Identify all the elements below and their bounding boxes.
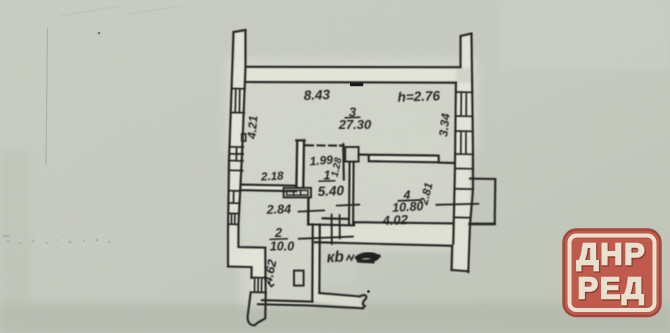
right wall divider: [455, 168, 473, 170]
faint diagonal streaks top: [60, 6, 180, 16]
left wall strip: [228, 68, 245, 230]
room1/4 partition: [349, 162, 354, 223]
left stub: [235, 32, 245, 68]
bottom corridor walls: [309, 224, 453, 246]
logo ДНР РЕД: [564, 230, 661, 317]
window hatch lower-left block: [251, 278, 266, 293]
small hook mark: [269, 283, 274, 286]
room2 top wall strip: [242, 185, 296, 191]
corridor stub top line: [319, 293, 360, 296]
wall break pennant bottom-left: [248, 292, 266, 325]
wall: room1/room4 partition: [349, 162, 354, 224]
window hatch left wall block 2: [230, 147, 243, 161]
scribbled-out apartment number: [356, 254, 381, 262]
wall: right chimney stub: [461, 34, 472, 68]
small shaft box room2 corner: [294, 271, 304, 286]
wall: lower-left zigzag jog: [238, 224, 265, 247]
heating riser bump on left wall: [242, 134, 246, 141]
wall: room4 top wall: [359, 155, 454, 163]
right stub: [462, 36, 472, 68]
balcony box: [470, 179, 495, 224]
paper shading bottom darker: [0, 303, 670, 333]
wall: room2 right wall: [307, 198, 310, 225]
top wall strip: [246, 68, 456, 81]
faint crease line: [46, 28, 48, 165]
corridor lower line D: [299, 237, 353, 239]
right wall strip: [453, 83, 472, 272]
lower-left zig strip: [228, 230, 265, 292]
wardrobe: [284, 188, 311, 198]
wall: top wall upper line: [246, 66, 461, 68]
wall: room1 left thick wall: [295, 141, 298, 186]
wall: left chimney stub top: [234, 30, 246, 32]
wall: left interior line: [239, 30, 246, 224]
window hatch left wall block 3: [229, 191, 239, 204]
balcony door jamb caps: [454, 189, 472, 218]
black vent tick on top wall: [350, 83, 363, 86]
wall break S bottom-center: [360, 295, 367, 308]
subtle light halo over whole plan: [226, 58, 478, 307]
room1 thick wall: [296, 141, 304, 187]
white wall interiors: [228, 32, 472, 308]
window hatch right wall block B: [455, 131, 473, 154]
paper shading top-right lighter: [500, 0, 670, 70]
bottom-right hook: [452, 246, 469, 271]
wall: top wall lower line: [245, 81, 456, 84]
room4 top wall strip: [359, 155, 439, 163]
svg-text:РЕД: РЕД: [578, 271, 646, 306]
wall: right interior line: [453, 83, 456, 244]
window hatch right wall block A: [456, 92, 473, 116]
door tick room2-hall: [299, 210, 324, 211]
door tick room1-room4: [337, 205, 359, 206]
left wall divider: [230, 169, 243, 171]
wall: right exterior line: [468, 34, 473, 273]
window hatch left wall block 4: [228, 213, 238, 224]
paper shading left darker: [0, 150, 30, 333]
vent shaft box: [345, 147, 358, 162]
faint smudge row left: [2, 235, 110, 244]
entrance door ticks: [332, 215, 340, 244]
wall: room4 / corridor bottom walls: [309, 222, 453, 225]
wall: 1.28 partition: [342, 144, 345, 179]
dot near break: [367, 290, 370, 293]
dashed opening 1.99: [306, 144, 344, 146]
svg-text:ДНР: ДНР: [577, 237, 647, 272]
wall: left exterior (stub down to lower jog): [228, 32, 234, 267]
window hatch left wall block 1: [231, 89, 245, 113]
balcony door tick: [436, 204, 478, 205]
wall: room2 bottom wall: [262, 300, 313, 302]
speck: [98, 32, 101, 35]
room2 bottom wall: [258, 300, 312, 305]
wall: room2 top wall (2.18) upper/lower: [242, 185, 296, 186]
